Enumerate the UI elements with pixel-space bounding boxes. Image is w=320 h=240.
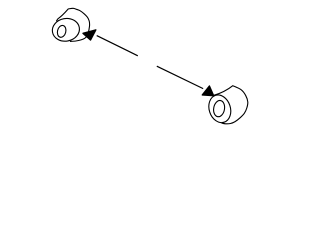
bushing 2 (lower right) body outline (214, 86, 248, 124)
leader arrow to bushing 2 shaft (157, 66, 203, 88)
bushing 1 (upper left) body outline (56, 8, 89, 41)
leader arrow to bushing 2 head (202, 86, 213, 96)
bushing 1 (upper left) bore hole (56, 24, 67, 38)
bushing 2 (lower right) face rim (205, 92, 234, 125)
leader arrow to bushing 1 shaft (97, 36, 138, 56)
bushing 1 (upper left) face rim (51, 16, 82, 43)
bushing 2 (lower right) bore hole (212, 100, 225, 118)
leader arrow to bushing 1 head (83, 30, 96, 40)
